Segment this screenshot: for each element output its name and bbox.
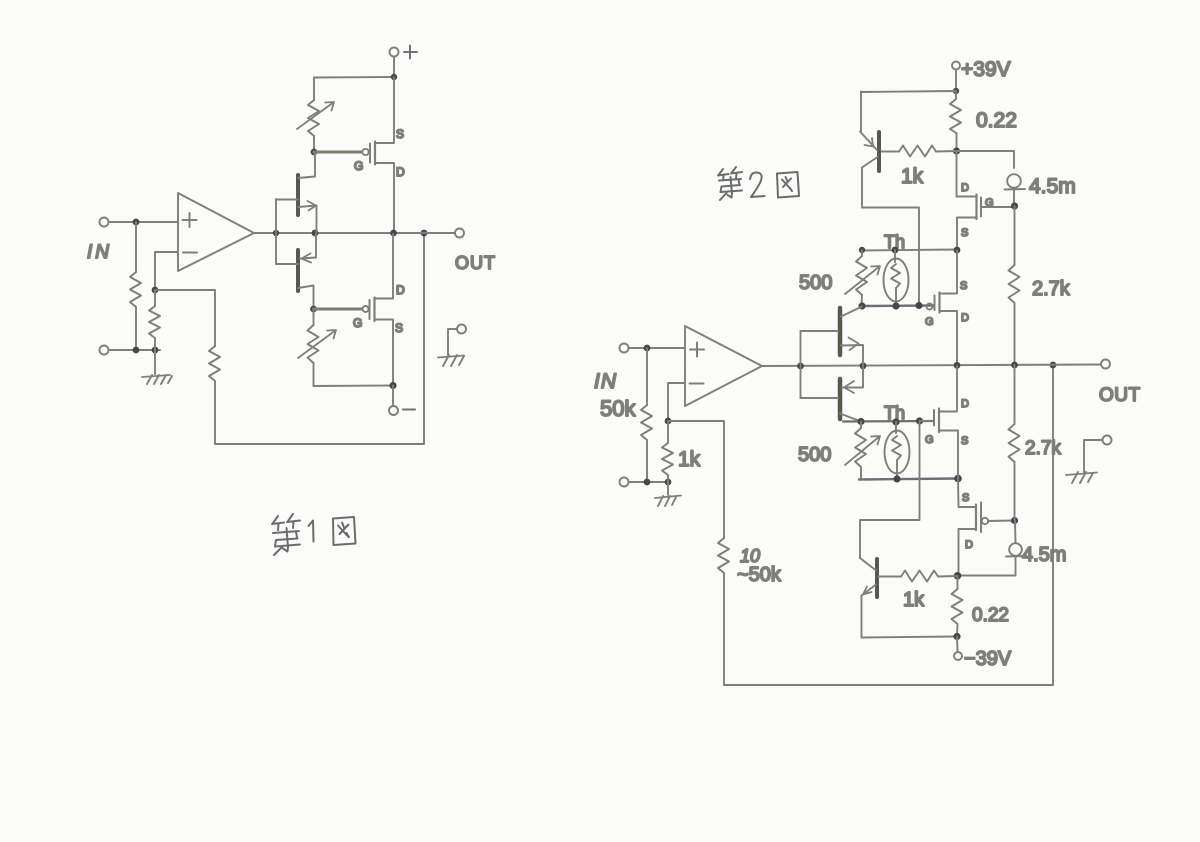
- label Th top: [884, 232, 905, 252]
- resistor R1: [130, 222, 141, 350]
- svg-text:S: S: [396, 127, 404, 141]
- svg-text:OUT: OUT: [455, 253, 496, 273]
- svg-text:G: G: [985, 197, 994, 209]
- label IN2: [594, 370, 617, 393]
- label 500 bottom: [798, 444, 831, 466]
- wire inverting input2: [668, 383, 685, 421]
- svg-text:4.5m: 4.5m: [1022, 544, 1066, 566]
- resistor Rfb (10~50k): [718, 538, 729, 685]
- label Th bottom: [884, 403, 905, 423]
- terminal input top: [100, 218, 109, 227]
- svg-text:S: S: [962, 492, 969, 504]
- terminal +39V: [952, 62, 960, 70]
- node -39V node: [953, 633, 960, 640]
- wire top rail: [314, 76, 394, 79]
- node drain node bottom: [954, 572, 962, 580]
- svg-text:OUT: OUT: [1099, 385, 1141, 406]
- svg-text:G: G: [925, 316, 934, 328]
- wire bottom feedback: [724, 365, 1053, 685]
- svg-text:G: G: [925, 434, 934, 446]
- svg-text:0.22: 0.22: [972, 605, 1009, 626]
- wire upper divider bottom line: [862, 304, 935, 307]
- svg-text:IN: IN: [594, 370, 617, 393]
- wire lower divider top line: [843, 420, 934, 423]
- wire +39V down: [955, 70, 957, 92]
- node output junctions: [273, 230, 397, 237]
- wire input2 bottom: [629, 481, 669, 483]
- label 1k bottom: [903, 589, 925, 611]
- label 4.5m top: [1029, 175, 1076, 198]
- svg-text:G: G: [353, 316, 362, 330]
- svg-text:+39V: +39V: [961, 58, 1011, 81]
- wire V+ to rail: [393, 57, 395, 78]
- svg-text:0.22: 0.22: [976, 109, 1017, 132]
- label 1k mid: [678, 448, 701, 471]
- transistor Q2 (lower bias BJT): [860, 558, 957, 638]
- meter 4.5m top: [957, 151, 1026, 205]
- terminal input2 bottom: [620, 478, 629, 487]
- wire gate wire to M2: [314, 308, 363, 311]
- transistor M1 (upper output FET): [354, 78, 405, 233]
- svg-text:1k: 1k: [903, 589, 925, 611]
- node bias node top: [953, 147, 960, 154]
- wire input+: [109, 221, 179, 223]
- terminal V-: [389, 406, 415, 415]
- node input junction: [133, 219, 140, 226]
- resistor R1kb (1k): [879, 571, 958, 582]
- svg-text:500: 500: [798, 444, 831, 466]
- node input2 bottom nodes: [644, 479, 672, 486]
- transistor J3 (upper JFET2): [801, 307, 864, 366]
- svg-text:D: D: [396, 165, 405, 179]
- wire feedback bottom: [215, 233, 424, 444]
- node top rail junction: [391, 74, 397, 80]
- label Fig.1 caption (dai-1-zu): [272, 514, 356, 555]
- transistor J2 (lower JFET): [276, 234, 316, 309]
- terminal input2 top: [620, 344, 629, 353]
- svg-text:S: S: [960, 280, 967, 292]
- resistor R022b (0.22): [952, 576, 963, 637]
- transistor Q1 (upper bias BJT): [860, 92, 919, 306]
- svg-text:S: S: [961, 227, 968, 239]
- node feedback node: [152, 287, 159, 294]
- thermistor TH2: [885, 422, 910, 478]
- wire input2+: [629, 347, 686, 349]
- transistor J4 (lower JFET2): [801, 366, 864, 422]
- node divider top nodes: [859, 247, 961, 254]
- label 10: [740, 546, 760, 566]
- svg-text:D: D: [961, 398, 969, 410]
- wire inverting input: [155, 252, 178, 290]
- label 0.22 bottom: [972, 605, 1009, 626]
- wire output line: [254, 232, 455, 234]
- label +39V: [961, 58, 1011, 81]
- svg-text:4.5m: 4.5m: [1029, 175, 1076, 198]
- svg-text:G: G: [354, 159, 363, 173]
- node gate node M6: [1011, 517, 1018, 524]
- label 500 top: [799, 272, 832, 294]
- resistor R1k2: [662, 421, 673, 482]
- variable resistor VR2: [298, 309, 336, 386]
- transistor M2 (lower output FET): [353, 234, 405, 385]
- variable resistor VR4 (500): [845, 422, 880, 480]
- meter 4.5m bottom: [959, 521, 1027, 576]
- resistor R3: [209, 346, 220, 444]
- node bottom input junctions: [133, 347, 159, 354]
- wire bottom tie: [314, 385, 394, 388]
- wire lower divider bottom line: [859, 479, 958, 480]
- wire Vbe tap: [860, 421, 920, 558]
- svg-text:S: S: [961, 435, 968, 447]
- label 2.7k top: [1032, 278, 1071, 300]
- thermistor TH1: [884, 250, 909, 306]
- transistor M3 (upper output FET): [957, 151, 1014, 250]
- node gate node M3: [1011, 202, 1018, 209]
- wire feedback top: [155, 290, 215, 346]
- transistor M4 (upper driver FET): [925, 251, 969, 365]
- node source node: [389, 382, 396, 389]
- resistor R27a (2.7k): [1009, 206, 1020, 364]
- svg-text:2.7k: 2.7k: [1025, 438, 1061, 459]
- transistor M5 (lower driver FET): [920, 366, 970, 478]
- label OUT1: [455, 253, 496, 273]
- wire upper divider top line: [860, 250, 957, 251]
- transistor M6 (lower output FET): [958, 479, 1014, 576]
- node gate node lower: [310, 306, 317, 313]
- svg-text:−39V: −39V: [964, 648, 1012, 670]
- label 4.5m bottom: [1022, 544, 1066, 566]
- node lower divider top nodes: [857, 417, 923, 425]
- svg-text:2.7k: 2.7k: [1032, 278, 1071, 300]
- terminal V+: [390, 46, 418, 59]
- op-amp U2: [685, 326, 762, 406]
- resistor R1ka (1k): [881, 146, 956, 157]
- wire input bottom: [109, 349, 161, 351]
- ground GND4: [1066, 436, 1112, 484]
- resistor R2: [149, 290, 160, 350]
- svg-text:D: D: [961, 312, 969, 324]
- svg-text:10: 10: [740, 546, 760, 566]
- terminal OUT1: [455, 229, 464, 238]
- svg-text:500: 500: [799, 272, 832, 294]
- ground GND1: [142, 350, 172, 384]
- wire output line2: [762, 365, 1101, 367]
- svg-text:S: S: [395, 321, 403, 335]
- label 50k: [600, 396, 636, 421]
- wire top rail: [861, 91, 956, 92]
- node gate node upper: [311, 149, 318, 156]
- node divider bottom nodes: [858, 302, 922, 310]
- label IN: [87, 242, 112, 263]
- terminal -39V: [954, 637, 962, 661]
- svg-text:~50k: ~50k: [737, 564, 782, 586]
- variable resistor VR3 (500): [845, 250, 880, 306]
- node fb out node: [1050, 362, 1057, 369]
- op-amp U1: [178, 193, 254, 271]
- transistor J1 (upper JFET): [276, 153, 317, 232]
- label ~50k: [737, 564, 782, 586]
- ground GND3: [655, 482, 681, 506]
- resistor R022a (0.22): [950, 91, 961, 150]
- svg-text:1k: 1k: [901, 165, 924, 188]
- wire JFET gate line2: [800, 331, 802, 398]
- node rail node: [953, 88, 959, 94]
- svg-text:D: D: [396, 283, 405, 297]
- node feedback to out: [421, 230, 428, 237]
- wire gate wire to M1: [314, 151, 361, 154]
- svg-text:D: D: [961, 182, 969, 194]
- node input2 node: [644, 345, 651, 352]
- svg-text:50k: 50k: [600, 396, 636, 421]
- svg-text:IN: IN: [87, 242, 112, 263]
- variable resistor VR1: [297, 78, 334, 152]
- node lower divider bottom nodes: [893, 475, 961, 483]
- node fb node2: [665, 418, 672, 425]
- node output2 junctions: [797, 362, 1018, 370]
- ground GND2: [438, 325, 466, 367]
- label 1k top: [901, 165, 924, 188]
- label 2.7k bottom: [1025, 438, 1061, 459]
- resistor R27b (2.7k): [1009, 365, 1020, 520]
- svg-text:1k: 1k: [678, 448, 701, 471]
- svg-text:D: D: [965, 539, 973, 551]
- wire JFET gate line: [275, 199, 277, 264]
- label -39V: [964, 648, 1012, 670]
- wire fb to pot: [668, 421, 724, 538]
- label OUT2: [1099, 385, 1141, 406]
- label Fig.2 caption (dai-2-zu): [718, 167, 799, 200]
- terminal OUT2: [1101, 360, 1110, 369]
- terminal input bottom: [100, 346, 109, 355]
- resistor R50k: [641, 348, 652, 482]
- label 0.22 top: [976, 109, 1017, 132]
- wire to V-: [392, 386, 394, 406]
